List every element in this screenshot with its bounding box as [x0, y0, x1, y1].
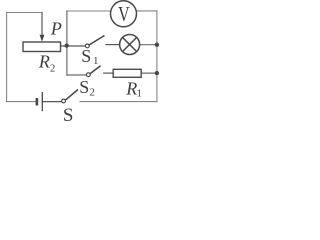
battery short plate (negative): [36, 98, 39, 106]
wire right vertical: [156, 11, 158, 102]
svg-text:V: V: [118, 2, 130, 26]
svg-text:P: P: [50, 19, 62, 39]
switch S pivot: [62, 99, 66, 103]
wire R2 to node A: [61, 45, 67, 47]
wiper arrow head P: [40, 35, 45, 42]
wire wiper stem: [41, 13, 43, 36]
resistor R1 body: [113, 69, 141, 77]
resistor R2 body (rheostat): [23, 42, 61, 52]
node A junction dot (R2/S1/S2 column): [65, 43, 69, 47]
wire bottom-left horizontal: [7, 101, 36, 103]
wire top-left horizontal: [7, 12, 42, 14]
wire S1 to lamp: [106, 44, 120, 46]
wire bottom-right horizontal: [80, 101, 157, 103]
wire battery to switch S: [43, 101, 62, 103]
switch S blade: [65, 90, 78, 101]
node junction dot lamp-right: [155, 43, 159, 47]
wire R1 to right vertical: [141, 72, 157, 74]
svg-text:S: S: [63, 105, 74, 125]
wire top-right horizontal (node to voltmeter): [67, 10, 111, 12]
wire left vertical: [6, 13, 8, 102]
wire junction vertical (node column): [66, 11, 68, 75]
wire S2 feed horizontal: [67, 74, 87, 76]
switch S1 blade: [89, 36, 105, 46]
lamp circle: [120, 35, 140, 55]
wire lamp to right vertical: [140, 44, 157, 46]
switch S2 blade: [90, 66, 101, 74]
node junction dot R1-right: [155, 71, 159, 75]
switch S1 pivot: [85, 44, 89, 48]
battery long plate (positive): [41, 92, 43, 111]
switch S2 pivot: [86, 73, 90, 77]
voltmeter V circle: [111, 1, 137, 27]
wire voltmeter to top-right corner: [137, 10, 157, 12]
wire node A to S1: [67, 45, 86, 47]
lamp cross: [123, 37, 137, 51]
wire S2 to R1: [104, 72, 114, 74]
